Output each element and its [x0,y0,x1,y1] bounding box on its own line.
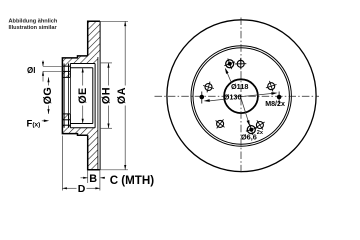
OA dim vertical [124,21,126,85]
bore walls [62,76,70,78]
ring outline [88,21,100,170]
screw hole Ø6,6 lower core [249,128,253,132]
OH ext lines [100,62,112,64]
arrowheads [42,21,126,189]
hatched bar+shoulder bottom [62,128,98,136]
leader to lower screw hole [240,95,249,122]
OG arrows [47,77,49,82]
hatched ring column bottom [88,135,98,170]
B arrows [83,177,88,179]
hatched flange top patches [62,64,70,67]
retaining screw hole Ø6,6 upper (ring) [226,60,234,68]
M8 left tick [201,92,203,104]
screw hole Ø6,6 upper core [228,62,232,66]
wheel bolt hole upper-right [268,83,275,90]
svg-text:Ø6,6: Ø6,6 [241,132,257,141]
wheel bolt hole top [237,60,244,67]
flange inner face verticals [68,64,70,128]
OE arrows [82,68,84,73]
ring outer face [99,21,101,170]
svg-text:D: D [78,183,86,195]
step face line [63,64,65,128]
hole cross ticks [240,58,242,69]
OI dim verticals [42,61,44,67]
leader Ø118 to upper screw hole [226,69,232,83]
OG dim vertical [48,77,50,85]
svg-text:C (MTH): C (MTH) [110,174,155,187]
interior back wall double [92,68,94,124]
svg-text:Øl: Øl [27,66,35,75]
D arrows [62,187,67,189]
hat outline: bar top/bottom edges + left face [62,56,87,135]
dimension + extension lines (thin gray) [42,21,128,190]
B/C extension verticals [87,170,89,183]
center bore circle ØG [224,79,258,113]
svg-text:M8/2x: M8/2x [265,100,285,108]
arrowhead at left M8 hole [204,99,210,102]
hatched ring column top [88,21,100,56]
arrowhead at right M8 hole [271,92,277,95]
F(x) leader [42,120,46,122]
wheel bolt hole lower-left [217,120,224,127]
svg-text:Ø130: Ø130 [224,93,242,102]
OH dim vertical [108,63,110,86]
OI extension lines [43,65,62,67]
stud hole edges bottom [62,119,70,121]
OA arrows [124,21,126,26]
leader Ø130 to left M8 hole [208,99,225,101]
OE dim vertical [82,68,84,86]
B arrows tails [81,177,88,179]
leader to right M8 hole [240,93,274,97]
M8 thread hole left (dot) [200,95,205,100]
D dim line [62,187,76,189]
M8 right tick [278,92,280,104]
stud hole edges top [62,65,70,67]
svg-text:2x: 2x [257,130,264,136]
interior ceiling / floor [70,63,95,65]
OH arrows [107,63,109,68]
vertical centerline [240,18,242,174]
svg-text:ØE: ØE [77,87,89,103]
friction band inner edge circles ØH [191,46,291,146]
hatched flange bottom patches [62,114,70,120]
disc outer diameter circle ØA [167,20,316,172]
svg-text:Illustration similar: Illustration similar [9,25,58,31]
D extension vertical left [61,136,63,191]
svg-text:ØA: ØA [116,87,128,104]
register surfaces [70,67,92,69]
svg-text:Ø118: Ø118 [231,82,248,91]
thin continuations through bore [68,77,70,114]
svg-text:Abbildung ähnlich: Abbildung ähnlich [9,19,58,25]
hatched bar+shoulder top [62,56,98,64]
OI arrows (outside pointing in) [42,62,44,67]
arrowhead at lower screw hole [247,120,250,126]
retaining screw hole Ø6,6 lower (ring) [247,126,255,134]
OA ext lines [100,20,128,22]
note text top-left [9,19,58,31]
horizontal centerline [155,95,320,97]
machined face line [97,57,99,169]
svg-text:ØG: ØG [42,87,54,105]
arrowhead at upper screw hole [225,68,229,74]
section outline strokes [62,21,100,170]
svg-text:ØH: ØH [101,87,113,104]
svg-text:B: B [89,173,97,185]
wheel bolt hole upper-left [205,84,212,91]
wheel bolt hole lower-right [256,122,263,129]
F(x) arrowhead [44,120,49,123]
M8 thread hole right (dot) [277,95,282,100]
